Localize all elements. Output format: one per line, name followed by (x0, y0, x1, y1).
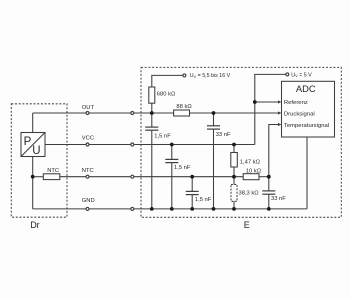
wire GND rail in E box (134, 208, 307, 210)
svg-text:33 nF: 33 nF (216, 132, 231, 138)
node OUT-33nF junction (212, 111, 216, 115)
terminal NTC 2 (131, 175, 134, 178)
wire NTC rail sensor side (59, 176, 85, 178)
wire P/U top to OUT rail (32, 113, 34, 133)
wire P/U bottom to GND corner (32, 157, 34, 209)
svg-text:33 nF: 33 nF (271, 196, 286, 202)
svg-text:1,5 nF: 1,5 nF (195, 197, 212, 203)
svg-text:OUT: OUT (82, 105, 95, 111)
svg-text:UV = 5 V: UV = 5 V (291, 72, 312, 78)
svg-text:U: U (32, 145, 40, 157)
op-amp U1 ADC block (282, 81, 335, 137)
svg-text:NTC: NTC (82, 168, 94, 174)
resistor R3 1.47k (231, 145, 238, 177)
node GND-C1 junction (150, 207, 154, 211)
node GND-C2 junction (212, 207, 216, 211)
capacitor C5 33nF (262, 177, 275, 209)
wire supply2 down to VCC rail (255, 74, 286, 144)
svg-text:38,3 kΩ: 38,3 kΩ (239, 190, 260, 196)
svg-text:NTC: NTC (47, 168, 59, 174)
capacitor C4 1.5nF (186, 177, 199, 209)
terminal OUT 2 (131, 112, 134, 115)
node GND-R5 junction (232, 207, 236, 211)
svg-text:88 kΩ: 88 kΩ (176, 104, 192, 110)
sensor housing dashed box Dr (11, 104, 67, 217)
resistor R2 88k (174, 110, 190, 116)
wire VCC rail sensor side (45, 144, 86, 146)
capacitor C1 1.5nF (145, 113, 158, 209)
capacitor C3 1.5nF (165, 145, 178, 209)
resistor R4 10k (243, 174, 259, 180)
wire GND rail between terminals (89, 208, 130, 210)
resistor R1 680k (149, 87, 155, 103)
ECU dashed box E (141, 67, 341, 217)
svg-text:1,5 nF: 1,5 nF (174, 165, 191, 171)
node OUT-680k junction (150, 111, 154, 115)
node GND-C3 junction (170, 207, 174, 211)
wire GND rail up to ADC (306, 137, 308, 209)
svg-text:Drucksignal: Drucksignal (284, 111, 315, 117)
terminal OUT 1 (86, 112, 89, 115)
node NTC-C5 junction (267, 175, 271, 179)
terminal GND 2 (131, 207, 134, 210)
svg-text:Temperatursignal: Temperatursignal (284, 123, 329, 129)
svg-text:UV = 5,5 bis 16 V: UV = 5,5 bis 16 V (190, 73, 231, 79)
svg-text:E: E (244, 220, 250, 230)
svg-text:Referenz: Referenz (284, 100, 308, 106)
wire supply1 to 680k (152, 75, 183, 87)
wire Temperatursignal (269, 125, 278, 177)
svg-text:1,47 kΩ: 1,47 kΩ (240, 159, 261, 165)
terminal NTC 1 (86, 175, 89, 178)
wire OUT rail between terminals (89, 112, 130, 114)
wire 10k resistor to node (259, 176, 269, 178)
node GND-C5 junction (267, 207, 271, 211)
wire OUT rail to ADC Drucksignal (190, 112, 278, 114)
node NTC-C4 junction (190, 175, 194, 179)
supply terminal Uv 5.5-16V (183, 74, 186, 77)
node GND-C4 junction (190, 207, 194, 211)
svg-text:10 kΩ: 10 kΩ (246, 168, 262, 174)
wire NTC rail between terminals (89, 176, 130, 178)
wire OUT rail into E box (134, 112, 174, 114)
capacitor C2 33nF (207, 113, 220, 209)
wire Referenz line (255, 101, 278, 103)
wire OUT rail segment sensor side (33, 112, 86, 114)
svg-text:680 kΩ: 680 kΩ (157, 92, 176, 98)
svg-text:1,5 nF: 1,5 nF (154, 133, 171, 139)
svg-text:Dr: Dr (30, 220, 40, 230)
terminal GND 1 (86, 207, 89, 210)
node sensor NTC junction (31, 175, 35, 179)
wire GND rail sensor side (33, 208, 86, 210)
svg-text:GND: GND (82, 198, 95, 204)
wire VCC rail into E box (134, 144, 255, 146)
node VCC-C3 junction (170, 143, 174, 147)
resistor NTC (43, 174, 60, 180)
wire VCC rail between terminals (89, 144, 130, 146)
node Referenz junction (253, 100, 257, 104)
resistor R5 38.3k dashed optional (231, 177, 237, 209)
terminal VCC 2 (131, 143, 134, 146)
wire junction to NTC resistor (33, 176, 43, 178)
arrow Referenz (278, 100, 282, 103)
wire 680k to OUT node (151, 103, 153, 113)
svg-text:ADC: ADC (296, 83, 316, 94)
svg-text:P: P (24, 136, 32, 148)
arrow Temperatursignal (278, 123, 282, 126)
svg-text:VCC: VCC (82, 135, 94, 141)
supply terminal Uv 5V (286, 73, 289, 76)
node NTC-R3R5 junction (232, 175, 236, 179)
node VCC-R3 junction (232, 143, 236, 147)
arrow Drucksignal (278, 111, 282, 114)
terminal VCC 1 (86, 143, 89, 146)
transducer P/U box (21, 133, 45, 157)
wire NTC rail into E box (134, 176, 243, 178)
